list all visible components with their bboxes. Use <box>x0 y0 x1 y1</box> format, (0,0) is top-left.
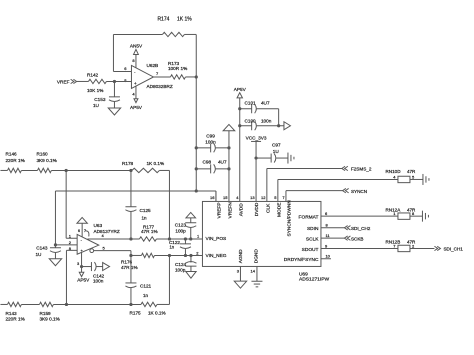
resistor R174 <box>113 16 196 36</box>
svg-text:AP5V: AP5V <box>130 105 143 110</box>
svg-text:C121: C121 <box>140 283 152 288</box>
svg-text:R143: R143 <box>5 311 17 316</box>
ground bars (RN12A) <box>422 211 428 222</box>
svg-text:1K 1%: 1K 1% <box>177 16 192 22</box>
wire OUT+ / VIN_POS <box>87 238 202 240</box>
capacitor C99 <box>195 134 231 153</box>
node SCKB connector <box>344 236 363 241</box>
resistor RN12A <box>385 207 422 219</box>
resistor R143 <box>0 302 24 321</box>
svg-text:47R 1%: 47R 1% <box>121 265 138 270</box>
svg-text:220R 1%: 220R 1% <box>5 316 24 321</box>
svg-text:SYNCN/PDWNN: SYNCN/PDWNN <box>287 200 293 237</box>
svg-text:3K9 0.1%: 3K9 0.1% <box>39 316 59 321</box>
power AP5V (U63) + capacitor C142 <box>77 252 110 283</box>
svg-text:AP5V: AP5V <box>234 87 247 92</box>
svg-text:100n: 100n <box>93 279 104 284</box>
svg-text:AGND: AGND <box>238 249 244 263</box>
svg-text:R146: R146 <box>5 151 17 156</box>
svg-text:AN5V: AN5V <box>130 43 143 48</box>
resistor R173 <box>168 61 196 79</box>
svg-text:1U: 1U <box>273 149 280 154</box>
op-amp U62B <box>124 58 173 96</box>
svg-text:C124: C124 <box>175 262 187 267</box>
resistor R177 <box>139 225 157 241</box>
wire OUT- / VIN_NEG <box>94 251 203 257</box>
svg-text:AP5V: AP5V <box>77 278 90 283</box>
svg-text:100p: 100p <box>175 268 186 273</box>
svg-text:12: 12 <box>261 195 266 200</box>
svg-text:1n: 1n <box>141 215 147 220</box>
svg-text:+: + <box>134 81 137 86</box>
svg-text:C101: C101 <box>244 100 256 105</box>
node R178 bottom <box>168 237 171 240</box>
node VREF input connector <box>57 79 89 84</box>
svg-text:DGND: DGND <box>254 249 260 264</box>
wire +in vertical <box>66 170 77 238</box>
svg-text:VCC_3V3: VCC_3V3 <box>246 136 267 141</box>
svg-text:VREF: VREF <box>57 79 70 84</box>
svg-text:4U7: 4U7 <box>261 100 270 105</box>
svg-text:10: 10 <box>325 254 330 259</box>
wire AVDD vertical <box>239 98 241 202</box>
svg-text:16: 16 <box>210 195 215 200</box>
resistor RN12B <box>385 240 434 252</box>
svg-text:100n: 100n <box>261 118 272 123</box>
wire feedback left <box>113 34 131 71</box>
wire DRDYN stub <box>321 258 331 260</box>
svg-text:C99: C99 <box>206 134 215 139</box>
wire CLK to F2SMS_2 <box>267 168 342 201</box>
resistor R175 <box>129 302 169 315</box>
svg-text:C97: C97 <box>272 143 281 148</box>
svg-text:13: 13 <box>250 195 255 200</box>
wire MODE to RN10D <box>278 179 398 201</box>
svg-text:100n: 100n <box>205 140 216 145</box>
capacitor C125 <box>125 170 151 240</box>
svg-text:CLK: CLK <box>265 203 271 213</box>
svg-text:SDI_CH1: SDI_CH1 <box>443 247 463 252</box>
resistor R178 <box>122 161 170 239</box>
node SDI_CH1 connector <box>434 246 463 251</box>
wire SYNC to SYNCN <box>286 191 343 202</box>
svg-text:6: 6 <box>78 229 80 233</box>
capacitor C153 <box>93 81 120 108</box>
svg-text:FORMAT: FORMAT <box>299 215 319 221</box>
wire pin7 hook <box>85 231 89 237</box>
svg-text:1n: 1n <box>143 293 149 298</box>
svg-text:VIN_NEG: VIN_NEG <box>205 253 226 259</box>
svg-text:AD8032BRZ: AD8032BRZ <box>146 84 172 89</box>
svg-text:1K 0.1%: 1K 0.1% <box>146 161 164 166</box>
svg-text:15: 15 <box>223 195 228 200</box>
wire SDIN to SDI_CH2 <box>321 227 345 229</box>
capacitor C100 <box>238 118 284 130</box>
svg-text:C143: C143 <box>36 246 48 251</box>
ground (C153) <box>108 108 120 115</box>
svg-text:U69: U69 <box>299 271 308 277</box>
svg-text:1U: 1U <box>35 252 42 257</box>
node +in junction <box>65 169 68 172</box>
pin 16 stub <box>215 191 217 202</box>
wire AGND pin3 + ground <box>234 266 246 288</box>
node -in junction <box>65 303 68 306</box>
svg-text:F2SMS_2: F2SMS_2 <box>351 167 372 172</box>
svg-text:ADS1271IPW: ADS1271IPW <box>299 277 330 283</box>
svg-text:1n: 1n <box>169 245 174 250</box>
capacitor C97 <box>254 143 288 163</box>
wire VREFN vertical <box>228 131 230 202</box>
capacitor C143 <box>35 245 61 259</box>
resistor R176 <box>121 253 155 270</box>
capacitor C124 + ground <box>175 254 197 278</box>
node F2SMS_2 connector <box>342 166 372 171</box>
ground bars (C97) <box>288 153 294 164</box>
svg-text:R175: R175 <box>129 310 141 315</box>
node U62B out junction <box>195 75 198 78</box>
svg-text:220R 1%: 220R 1% <box>5 158 24 163</box>
svg-text:14: 14 <box>250 268 255 273</box>
svg-text:R142: R142 <box>87 72 99 77</box>
svg-text:C100: C100 <box>244 118 256 123</box>
svg-text:VREFN: VREFN <box>227 202 233 219</box>
svg-text:47R: 47R <box>407 169 416 174</box>
svg-text:100R 1%: 100R 1% <box>168 66 187 71</box>
svg-text:100p: 100p <box>175 229 186 234</box>
svg-text:SDIN: SDIN <box>307 226 319 232</box>
power AP5V (U62B) <box>130 86 143 110</box>
op-amp U63 AD8137YRZ <box>69 223 120 254</box>
node SYNCN connector <box>343 188 367 193</box>
resistor R159 <box>21 302 141 321</box>
power VCC_3V3 <box>246 136 267 202</box>
svg-text:VIN_POS: VIN_POS <box>205 236 226 242</box>
svg-text:C125: C125 <box>139 208 151 213</box>
wire SDOUT to RN12B <box>321 247 398 249</box>
node C125 top junction <box>129 169 132 172</box>
svg-text:C98: C98 <box>202 159 211 164</box>
svg-text:SYNCN: SYNCN <box>351 189 367 194</box>
resistor R142 <box>87 72 107 93</box>
svg-text:SCLK: SCLK <box>306 237 319 243</box>
power AP5V (AVDD) <box>234 87 247 98</box>
IC U69 ADS1271IPW <box>202 200 329 283</box>
svg-text:47R 1%: 47R 1% <box>141 229 158 234</box>
IC pin numbers <box>196 195 330 274</box>
svg-text:U62B: U62B <box>146 63 158 68</box>
capacitor C122 <box>169 237 191 257</box>
wire VREFP vertical <box>195 34 197 191</box>
power arrow (VREFN rail) <box>223 124 235 130</box>
resistor R146 <box>0 151 24 172</box>
ground bars (RN10D) <box>423 174 429 185</box>
ground (C143) <box>49 259 61 266</box>
svg-text:R160: R160 <box>36 151 48 156</box>
svg-text:R159: R159 <box>39 311 51 316</box>
capacitor C123 + power arrow <box>175 212 197 240</box>
wire U62B output <box>153 76 170 78</box>
capacitor C121 <box>125 255 151 306</box>
svg-text:C142: C142 <box>93 273 105 278</box>
power arrow (U63 top) <box>77 217 87 236</box>
svg-text:SDOUT: SDOUT <box>302 247 319 253</box>
svg-text:R178: R178 <box>122 161 134 166</box>
node SDI_CH2 connector <box>344 226 370 231</box>
svg-text:AD8137YRZ: AD8137YRZ <box>93 229 119 234</box>
wire -in vertical <box>66 250 77 304</box>
wire DGND pin14 + ground bars <box>251 266 262 286</box>
svg-text:1K 0.1%: 1K 0.1% <box>148 310 166 315</box>
svg-text:RN10D: RN10D <box>385 169 401 174</box>
svg-text:10K 1%: 10K 1% <box>87 88 103 93</box>
svg-text:SCKB: SCKB <box>351 236 364 241</box>
resistor R160 <box>21 151 132 172</box>
svg-text:AVDD: AVDD <box>239 203 245 217</box>
svg-text:MODE: MODE <box>276 203 282 217</box>
wire FORMAT to RN12A <box>321 215 398 217</box>
svg-text:SDI_CH2: SDI_CH2 <box>351 226 371 231</box>
node R175 top <box>168 254 171 305</box>
svg-text:DVDD: DVDD <box>254 202 260 216</box>
svg-text:VREFP: VREFP <box>216 202 222 218</box>
capacitor C101 <box>238 100 279 125</box>
svg-text:U63: U63 <box>93 223 102 228</box>
svg-text:C123: C123 <box>175 223 187 228</box>
svg-text:1U: 1U <box>93 103 100 108</box>
wire SCLK to SCKB <box>321 237 345 239</box>
wire VOCM pin2 <box>54 191 77 246</box>
svg-text:4U7: 4U7 <box>218 159 227 164</box>
svg-text:DRDYN/FSYNC: DRDYN/FSYNC <box>284 257 319 263</box>
svg-text:C153: C153 <box>94 97 106 102</box>
svg-text:R174: R174 <box>157 16 169 22</box>
resistor RN10D <box>385 169 423 183</box>
capacitor C98 <box>195 159 231 173</box>
wire VREFP horizontal <box>55 189 216 201</box>
power AN5V <box>130 43 143 67</box>
wire to +input <box>106 80 131 83</box>
ground arrow right (C100) <box>284 122 291 130</box>
svg-text:3K9 0.1%: 3K9 0.1% <box>36 158 56 163</box>
